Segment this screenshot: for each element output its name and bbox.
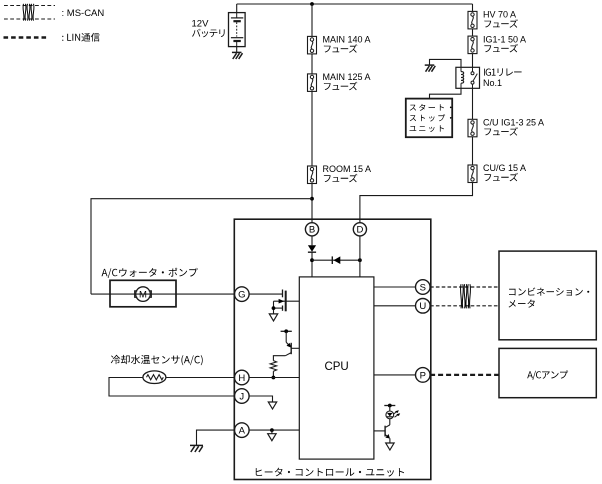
fuse IG1-1 50 A bbox=[468, 36, 477, 54]
svg-text:U: U bbox=[419, 301, 426, 312]
svg-text:No.1: No.1 bbox=[483, 78, 502, 88]
wire branch to water pump bbox=[91, 199, 312, 294]
diode D2 bbox=[332, 256, 340, 264]
wire pin A to CPU bbox=[249, 429, 299, 431]
wire right bus HV to IG1-1 bbox=[472, 29, 474, 36]
wire CPU to pin S bbox=[374, 286, 416, 288]
A/C water pump box bbox=[110, 280, 176, 307]
label MAIN 140 A fuse bbox=[323, 35, 371, 53]
wire right bus relay to C/U fuse bbox=[472, 88, 474, 119]
wire left bus between fuses bbox=[311, 54, 313, 74]
internal supply tap LED bbox=[384, 404, 395, 408]
relay coil ground bbox=[425, 64, 435, 66]
label C/U IG1-3 25 A fuse bbox=[483, 118, 544, 136]
signal ground below MOSFET bbox=[269, 314, 277, 321]
wire pump line bbox=[91, 293, 234, 295]
svg-text:MAIN 125 A: MAIN 125 A bbox=[323, 72, 371, 82]
fuse HV 70 A bbox=[468, 11, 477, 29]
label CU/G 15 A fuse bbox=[483, 163, 526, 181]
wire Q2 base to CPU bbox=[374, 430, 385, 432]
svg-text:J: J bbox=[239, 391, 244, 402]
wire Q1 collector to resistor bbox=[273, 356, 285, 361]
svg-text:H: H bbox=[238, 373, 245, 384]
junction A line bbox=[270, 428, 274, 432]
A/C amp box bbox=[499, 348, 596, 397]
signal ground at J bbox=[268, 402, 276, 409]
wire right bus to node D bbox=[360, 183, 473, 223]
wire CPU to pin P bbox=[374, 374, 416, 376]
combination meter box bbox=[499, 251, 596, 340]
fuse MAIN 125 A bbox=[308, 74, 317, 92]
svg-text:S: S bbox=[420, 282, 426, 293]
wire right bus C/U to CU/G fuse bbox=[472, 137, 474, 165]
twisted pair symbol MS-CAN bbox=[460, 284, 463, 308]
wire pin H to CPU bbox=[249, 377, 299, 379]
wire sensor loop to pin J bbox=[109, 378, 234, 397]
pin S bbox=[416, 280, 431, 295]
wire right bus IG1-1 to relay bbox=[472, 54, 474, 68]
svg-text:CPU: CPU bbox=[324, 361, 348, 373]
wire cross link B-D bbox=[312, 259, 360, 261]
svg-text:B: B bbox=[309, 225, 315, 236]
wire battery to top rail bbox=[236, 4, 238, 13]
label start-stop line1 bbox=[410, 104, 452, 111]
battery ground bbox=[232, 51, 242, 53]
svg-text:HV 70 A: HV 70 A bbox=[483, 10, 516, 20]
junction top rail / left bus bbox=[310, 2, 314, 6]
label combination meter line1 bbox=[509, 288, 589, 296]
LED D3 bbox=[386, 406, 394, 425]
wire pin D to CPU bbox=[359, 236, 361, 277]
resistor R1 bbox=[270, 361, 276, 372]
fuse ROOM 15 A bbox=[308, 166, 317, 184]
transistor Q1 bbox=[285, 331, 291, 355]
pin G bbox=[235, 287, 250, 302]
label A/C water pump bbox=[102, 268, 198, 278]
label MAIN 125 A fuse bbox=[323, 72, 371, 90]
svg-text:MAIN 140 A: MAIN 140 A bbox=[323, 35, 371, 45]
wire right bus upper bbox=[472, 4, 474, 11]
pin A bbox=[235, 423, 250, 438]
internal supply tap Q1 bbox=[281, 329, 292, 333]
wire sensor to pin H bbox=[166, 377, 235, 379]
wire Q1 base to CPU bbox=[291, 347, 299, 349]
heater control unit box bbox=[234, 219, 430, 479]
svg-text:P: P bbox=[420, 370, 426, 381]
label coolant temp sensor bbox=[111, 355, 203, 365]
svg-text:A: A bbox=[239, 426, 246, 437]
svg-text:D: D bbox=[356, 225, 363, 236]
wire pin G to MOSFET gate bbox=[249, 293, 282, 295]
svg-text:CU/G 15 A: CU/G 15 A bbox=[483, 163, 526, 173]
legend MS-CAN twisted-pair symbol bbox=[4, 4, 55, 21]
junction node B column bbox=[310, 258, 314, 262]
label ROOM 15 A fuse bbox=[323, 164, 372, 182]
junction left bus / pump branch bbox=[310, 197, 314, 201]
wire left bus to ROOM fuse bbox=[311, 91, 313, 166]
signal ground at A bbox=[268, 434, 276, 441]
start-stop unit box bbox=[406, 99, 452, 138]
label start-stop line3 bbox=[410, 125, 445, 132]
svg-text:IG1-1 50 A: IG1-1 50 A bbox=[483, 34, 526, 44]
coolant temp sensor bbox=[143, 371, 166, 384]
pin D bbox=[353, 223, 366, 236]
LED light arrows bbox=[393, 410, 400, 417]
wire battery to ground bbox=[236, 47, 238, 53]
wire pin A to chassis ground bbox=[197, 430, 235, 445]
wire left bus to node B bbox=[311, 184, 313, 223]
MS-CAN bus U bbox=[430, 305, 499, 307]
svg-text:G: G bbox=[238, 290, 245, 301]
label IG1 relay bbox=[483, 68, 522, 87]
svg-text:: MS-CAN: : MS-CAN bbox=[62, 8, 105, 19]
label HV 70 A fuse bbox=[483, 10, 518, 28]
fuse CU/G 15 A bbox=[468, 165, 477, 183]
label combination meter line2 bbox=[509, 300, 535, 308]
pin H bbox=[235, 370, 250, 385]
junction node D column bbox=[358, 258, 362, 262]
CPU U1 bbox=[299, 277, 374, 459]
relay IG1 No.1 bbox=[456, 67, 480, 88]
fuse MAIN 140 A bbox=[308, 36, 317, 54]
wire pin B to diode bbox=[311, 236, 313, 245]
pin U bbox=[416, 299, 431, 314]
wire top rail bbox=[237, 3, 473, 5]
label IG1-1 50 A fuse bbox=[483, 34, 526, 52]
pin B bbox=[305, 223, 318, 236]
wire pin J to ground bbox=[249, 396, 272, 402]
fuse C/U IG1-3 25 A bbox=[468, 119, 477, 137]
MOSFET Q3 bbox=[272, 290, 300, 314]
MS-CAN bus S bbox=[430, 286, 499, 288]
signal ground below Q2 bbox=[386, 443, 394, 450]
legend LIN line bbox=[4, 36, 49, 39]
wire CPU to pin U bbox=[374, 305, 416, 307]
svg-text:C/U IG1-3 25 A: C/U IG1-3 25 A bbox=[483, 118, 544, 128]
wire junction to ground triangle bbox=[271, 430, 273, 434]
label heater control unit bbox=[256, 468, 404, 477]
pin P bbox=[416, 368, 431, 383]
pin J bbox=[235, 389, 250, 404]
wire diode to CPU bbox=[311, 252, 313, 277]
wire relay coil to ground bbox=[430, 59, 462, 67]
svg-text:M: M bbox=[139, 290, 147, 301]
svg-text:ROOM 15 A: ROOM 15 A bbox=[323, 164, 372, 174]
LIN bus P bbox=[430, 374, 499, 376]
transistor Q2 bbox=[385, 425, 390, 443]
motor M1 bbox=[135, 287, 152, 302]
battery label batteri bbox=[192, 29, 225, 38]
battery 12V bbox=[229, 13, 246, 47]
diode D1 bbox=[308, 245, 316, 252]
label A/C amp bbox=[527, 370, 568, 380]
chassis ground at A bbox=[190, 444, 203, 446]
svg-text:12V: 12V bbox=[192, 18, 210, 29]
legend label LIN bbox=[62, 33, 99, 42]
wire resistor to H line bbox=[272, 371, 274, 377]
label start-stop line2 bbox=[410, 114, 452, 121]
wire left bus upper bbox=[311, 4, 313, 36]
wire relay coil to start-stop unit bbox=[430, 88, 462, 98]
junction H line bbox=[272, 376, 276, 380]
